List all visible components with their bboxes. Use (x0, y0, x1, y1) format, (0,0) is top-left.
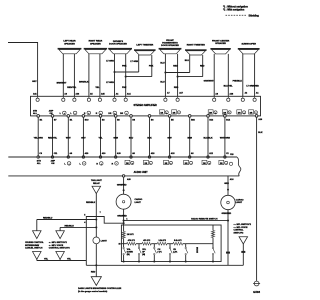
svg-text:SPEAKER: SPEAKER (90, 42, 101, 45)
wire RED/BLU to MPL switch (60, 226, 96, 228)
svg-text:DRIVER'S: DRIVER'S (113, 41, 124, 43)
amp input pin (37, 96, 39, 98)
svg-text:LEFT REAR: LEFT REAR (63, 40, 76, 43)
svg-text:AMP: AMP (51, 160, 56, 163)
svg-text:PNK: PNK (149, 65, 154, 67)
connector to cruise control set/resume/cancel switch (33, 231, 42, 239)
svg-text:AUDIO UNIT: AUDIO UNIT (134, 171, 148, 174)
svg-text:+ : MPL VOICE: + : MPL VOICE (49, 245, 64, 247)
amp input pin (114, 96, 116, 98)
svg-text:(M): (M) (127, 254, 130, 256)
wire LT GRN left-tweeter + (138, 55, 140, 72)
svg-text:MODE: MODE (196, 247, 198, 254)
amp pin B7 wire RED/YEL to audio unit pin C11 (51, 115, 54, 118)
svg-text:RED/YEL: RED/YEL (48, 138, 58, 140)
svg-text:RIGHT TWEETER: RIGHT TWEETER (187, 45, 206, 47)
wire PNK/BLK subwoofer + to amp pin A2 (242, 54, 244, 96)
wire RED/BLK from taillight relay down to light (95, 194, 97, 237)
svg-text:WHT/GRN: WHT/GRN (220, 138, 230, 140)
svg-text:PNK/BLK: PNK/BLK (233, 81, 243, 83)
svg-text:LIGHT: LIGHT (236, 202, 243, 204)
svg-text:*1 : Without navigation: *1 : Without navigation (223, 6, 248, 9)
svg-text:STEREO AMPLIFIER: STEREO AMPLIFIER (134, 104, 158, 107)
ground G503 (254, 281, 259, 286)
wire YEL illumination rail left segment (37, 260, 87, 262)
svg-text:BLU: BLU (185, 60, 190, 62)
wire PNK drivers-door-speaker - to amp pin A14 (125, 54, 127, 97)
svg-text:GRN: GRN (113, 138, 118, 140)
svg-text:CONTROL: CONTROL (234, 230, 245, 232)
svg-text:CRUISE CONTROL: CRUISE CONTROL (25, 242, 44, 244)
wire PNK left-tweeter - (151, 55, 153, 77)
svg-text:SWITCH*2: SWITCH*2 (234, 232, 245, 234)
svg-text:BLU: BLU (160, 62, 165, 64)
svg-text:RIGHT REAR: RIGHT REAR (89, 40, 103, 43)
svg-text:BLU: BLU (129, 138, 134, 140)
svg-text:1: 1 (126, 219, 127, 221)
resistor R2 470 &#937; (124, 243, 127, 245)
switch SW2 VOL UP (138, 244, 140, 248)
wire RED right-tweeter - (202, 55, 204, 77)
svg-text:GRY: GRY (167, 138, 172, 140)
svg-text:BLK: BLK (147, 138, 152, 140)
amp input pin (88, 96, 90, 98)
connector to MPL switch / MPL voice control switch (56, 231, 65, 239)
switch SW3 CH (&#8722;)*1 (153, 244, 155, 248)
amp input pin (227, 96, 229, 98)
svg-text:470 Ω*2: 470 Ω*2 (128, 239, 135, 242)
svg-text:GRN/RED: GRN/RED (222, 213, 232, 215)
audio unit pin A16 to cargo light 2 (227, 176, 229, 196)
svg-text:DOOR SPEAKER: DOOR SPEAKER (109, 43, 127, 46)
svg-text:Shielding: Shielding (249, 15, 260, 17)
svg-text:BLU/YEL: BLU/YEL (224, 85, 234, 87)
svg-text:DOOR SPEAKER: DOOR SPEAKER (161, 44, 179, 47)
svg-text:RADIO REMOTE SWITCH: RADIO REMOTE SWITCH (191, 217, 218, 220)
amp pin B10 wire GRY to audio unit pin A19 (82, 115, 85, 118)
svg-text:+ : MPL VOICE: + : MPL VOICE (234, 227, 249, 229)
svg-text:(in the gauge control module): (in the gauge control module) (78, 290, 108, 293)
svg-text:5.6k Ω*2: 5.6k Ω*2 (174, 240, 182, 242)
audio unit pin A10 to cargo light 1 (122, 175, 124, 177)
wire from page left to audio unit pin C9 (8, 156, 37, 158)
svg-text:+ : MPL SWITCH*2: + : MPL SWITCH*2 (49, 242, 68, 244)
amp input pin (213, 96, 215, 98)
svg-text:WHT: WHT (66, 138, 71, 140)
wire GRY from page left to amplifier pin A11 (8, 43, 38, 97)
radio remote switch MODE branch with resistor R6 (186, 243, 213, 245)
svg-text:BLU: BLU (160, 82, 165, 84)
amp input pin (125, 96, 127, 98)
svg-text:(+)*1: (+)*1 (173, 251, 177, 253)
svg-text:10: 10 (118, 244, 120, 246)
connector from cruise control switch to illumination ground rail (33, 252, 42, 260)
wire BRN/BLK right-rear-speaker + to amp pin A5 (88, 54, 90, 97)
svg-text:BRN: BRN (187, 138, 192, 140)
radio remote switch S1 box (121, 225, 221, 262)
svg-text:RED/BLU: RED/BLU (43, 218, 53, 220)
svg-text:PNK: PNK (122, 65, 127, 67)
svg-text:C18: C18 (230, 154, 233, 156)
wire from MPL switch connector to illumination rail (242, 244, 244, 265)
svg-text:CARGO: CARGO (135, 198, 143, 201)
wire BLU passengers-door-speaker + to amp pin A7 (164, 54, 166, 97)
audio unit internal pin circle (229, 162, 232, 165)
svg-text:YEL/GRN: YEL/GRN (34, 138, 44, 140)
svg-text:RED/BLU: RED/BLU (65, 226, 75, 228)
amp input pin (73, 96, 75, 98)
amp input pin (177, 96, 179, 98)
svg-text:GRN/RED: GRN/RED (117, 184, 127, 186)
svg-text:(M): (M) (142, 254, 145, 256)
wire from rail up to splice with cargo light branch (86, 217, 123, 261)
svg-text:LEFT TWEETER: LEFT TWEETER (136, 45, 153, 47)
svg-text:5: 5 (84, 215, 85, 217)
wire LT GRN drivers-door-speaker + to amp pin A4 (114, 54, 116, 97)
amp input pin (62, 96, 64, 98)
svg-text:RED: RED (200, 66, 205, 68)
wire RED to dash lights brightness controller (95, 265, 97, 276)
svg-text:LT GRN: LT GRN (106, 82, 114, 84)
svg-text:G503: G503 (253, 290, 260, 294)
wire: left tweeter + joins drivers door speaker + (115, 71, 139, 73)
svg-text:CANCEL SWITCH: CANCEL SWITCH (25, 247, 43, 250)
svg-text:LT GRN/RED: LT GRN/RED (246, 85, 259, 87)
amp pin B16 wire BRN to audio unit pin A5 (188, 115, 191, 118)
svg-text:GRN/WHT: GRN/WHT (204, 81, 215, 83)
svg-text:SUBWOOFER: SUBWOOFER (241, 44, 256, 46)
lamp: cargo area light 1 (116, 194, 131, 209)
svg-text:*2 : With navigation: *2 : With navigation (223, 8, 245, 11)
amp pin B8 wire BLU to audio unit pin A8 (130, 115, 133, 118)
wire RED passengers-door-speaker - to amp pin A17 (177, 54, 179, 97)
svg-text:DASH LIGHTS BRIGHTNESS CONTROL: DASH LIGHTS BRIGHTNESS CONTROLLER (78, 287, 122, 290)
lamp: cargo area light 2 (221, 195, 235, 209)
amp pin B1 wire WHT to audio unit pin A9 (67, 115, 70, 118)
amp pin B13 wire BLU/BLK to audio unit pin A12 (207, 115, 210, 118)
svg-text:+ : MPL SWITCH*2: + : MPL SWITCH*2 (234, 224, 252, 226)
legend: shielding dashed line (226, 14, 247, 16)
amp pin B5 wire GRY to audio unit pin A15 (168, 115, 171, 118)
wire: right tweeter + joins passengers door speaker + (165, 72, 189, 74)
switch SW4 CH (+)*1 (169, 244, 171, 248)
amp pin B3 wire GRN to audio unit pin A20 (114, 115, 117, 118)
svg-text:LIGHT: LIGHT (135, 202, 142, 204)
svg-text:BRN/WHT: BRN/WHT (57, 83, 68, 85)
svg-text:SPEAKER: SPEAKER (215, 42, 226, 45)
svg-text:CARGO: CARGO (236, 198, 244, 201)
connector from MPL switch to illumination ground rail (56, 252, 65, 260)
svg-text:GRN: GRN (224, 183, 229, 185)
svg-text:GRY: GRY (32, 81, 37, 83)
svg-text:SPEAKER: SPEAKER (64, 42, 75, 45)
svg-text:RED/YEL: RED/YEL (67, 87, 77, 89)
inline connector on cargo light 2 wire (226, 252, 230, 254)
svg-text:RELAY: RELAY (93, 182, 100, 185)
wire BRN/WHT left-rear-speaker + to amp pin A6 (62, 54, 64, 97)
svg-text:TAILLIGHT: TAILLIGHT (91, 179, 102, 182)
resistor R5 5.6k &#937; (170, 243, 173, 245)
wire: left tweeter - joins drivers door speaker - (126, 76, 152, 78)
svg-text:DR: DR (108, 113, 112, 115)
svg-text:(−)*1: (−)*1 (158, 251, 162, 253)
svg-text:RED: RED (174, 87, 179, 89)
svg-text:1M Ω*2: 1M Ω*2 (127, 234, 135, 236)
svg-text:470 Ω*2: 470 Ω*2 (143, 239, 150, 242)
svg-text:BLU/BLK: BLU/BLK (203, 138, 213, 140)
wire GRN/RED cargo light 2 down to splice (227, 210, 229, 266)
audio unit U2 box (38, 156, 237, 158)
amp ground pin A16 wire BLK to ground G503 (255, 115, 258, 118)
amp pin B14 wire WHT/GRN to audio unit pin C2 (224, 115, 227, 118)
amp input pin (254, 96, 256, 98)
wire RED/YEL right-rear-speaker - to amp pin A15 (99, 54, 101, 97)
amp pin B2 wire YEL to audio unit pin A10 (99, 115, 102, 118)
wire GRN/WHT center-speaker + to amp pin A8 (213, 54, 215, 96)
svg-text:RED/BLK: RED/BLK (86, 202, 96, 204)
connector to dash lights brightness controller (91, 277, 101, 286)
svg-text:7: 7 (100, 212, 101, 214)
wire illumination rail right segment (85, 261, 87, 266)
wire joining cargo light 1 and cargo light 2 branches (124, 220, 228, 222)
svg-text:DR: DR (120, 113, 124, 115)
amp input pin (99, 96, 101, 98)
wire RED/YEL left-rear-speaker - to amp pin A16 (73, 54, 75, 97)
wire: right tweeter - joins passengers door speaker - (178, 76, 203, 78)
svg-text:LT GRN: LT GRN (106, 61, 114, 63)
resistor R3 470 &#937; (139, 243, 142, 245)
amp pin B4 wire YEL/GRN to audio unit pin C9 (37, 115, 40, 118)
switch SW1 VOL DOWN (123, 244, 125, 248)
svg-text:RED: RED (173, 66, 178, 68)
radio remote switch resistor rail (121, 243, 123, 245)
svg-text:RED: RED (91, 271, 96, 273)
inline connector on MPL switch wire (241, 251, 245, 253)
svg-text:LIGHT: LIGHT (101, 240, 108, 242)
wire BLU right-tweeter + (189, 55, 191, 73)
wire RED/BLU to cruise control switch (37, 219, 97, 221)
svg-text:PNK: PNK (122, 87, 127, 89)
svg-text:GRY: GRY (81, 138, 86, 140)
svg-text:CONTROL SWITCH*2: CONTROL SWITCH*2 (49, 248, 71, 250)
svg-text:FRONT CENTER: FRONT CENTER (212, 40, 230, 42)
svg-text:BLK: BLK (258, 132, 263, 134)
stereo amplifier U1 box (31, 96, 261, 116)
wire LT GRN/RED subwoofer - to amp pin A1 (254, 54, 256, 96)
amp input pin (242, 96, 244, 98)
svg-text:BRN/BLK: BRN/BLK (79, 82, 89, 84)
switch SW5 (185, 244, 187, 248)
resistor R1 1M ohm (123, 225, 125, 232)
svg-text:1.2k Ω*2: 1.2k Ω*2 (158, 240, 166, 242)
amp input pin (164, 96, 166, 98)
svg-text:GRN/RED: GRN/RED (117, 216, 127, 218)
svg-text:SET/RESUME/: SET/RESUME/ (25, 245, 40, 247)
svg-text:LT GRN: LT GRN (130, 61, 138, 63)
amp pin B6 wire BLK to audio unit pin A18 (148, 115, 151, 118)
lamp: radio switch illumination LIGHT (93, 237, 100, 244)
resistor R4 1.2k &#937; (154, 243, 157, 245)
wire BLU/YEL center-speaker - to amp pin A18 (227, 54, 229, 96)
